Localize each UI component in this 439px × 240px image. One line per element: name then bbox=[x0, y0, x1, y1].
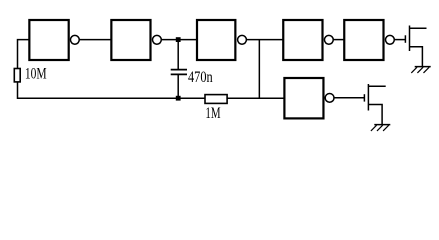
wire U2 out to U3 in bbox=[161, 39, 197, 41]
resistor R2 1M bbox=[205, 95, 227, 104]
wire U4 out to U5 in bbox=[333, 39, 344, 41]
wire R1 bottom to bottom rail bbox=[18, 82, 206, 98]
wire U6 out to Q2 gate bbox=[334, 97, 364, 99]
wire node A down to capacitor bbox=[177, 40, 179, 70]
transistor Q2 bbox=[364, 84, 385, 125]
wire input to U1 bbox=[18, 40, 30, 69]
wire U1 out to U2 in bbox=[79, 39, 111, 41]
wire capacitor to bottom rail bbox=[177, 74, 179, 98]
transistor Q1 bbox=[405, 26, 426, 67]
junction node A top bbox=[176, 37, 181, 42]
svg-text:10M: 10M bbox=[25, 66, 47, 83]
wire U3 out to U4 in bbox=[246, 39, 283, 41]
ground for Q2 bbox=[371, 125, 390, 131]
inverter U2 bbox=[111, 20, 161, 60]
wire feedback vertical bbox=[258, 40, 260, 99]
inverter U6 bbox=[284, 78, 334, 118]
junction node B bottom bbox=[176, 96, 181, 101]
inverter U5 bbox=[344, 20, 394, 60]
inverter U1 bbox=[29, 20, 79, 60]
wire R2 to U6 input bbox=[227, 97, 284, 99]
svg-text:470n: 470n bbox=[188, 69, 213, 86]
resistor R1 10M bbox=[14, 69, 20, 82]
inverter U4 bbox=[283, 20, 333, 60]
capacitor C1 470n bbox=[171, 70, 187, 75]
svg-text:1M: 1M bbox=[205, 105, 220, 122]
wire U5 out to Q1 gate bbox=[394, 39, 405, 41]
inverter U3 bbox=[197, 20, 246, 60]
ground for Q1 bbox=[411, 67, 430, 73]
